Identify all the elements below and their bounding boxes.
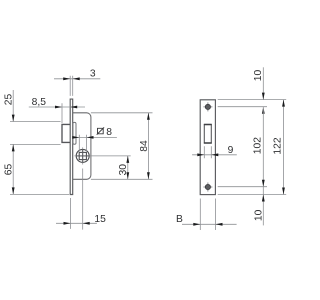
dim 10 top line: [262, 67, 264, 99]
svg-text:122: 122: [272, 137, 283, 154]
svg-text:10: 10: [253, 209, 264, 221]
dim B extension lines: [200, 199, 215, 231]
dim sq8 extension lines: [79, 135, 86, 152]
dim 25 arrow: [12, 115, 15, 122]
faceplate bottom extension line: [10, 193, 69, 195]
svg-text:65: 65: [3, 164, 14, 176]
dim 25 line: [12, 90, 14, 121]
dim 15 line: [56, 222, 97, 224]
faceplate (side view, 3mm thick): [70, 99, 73, 194]
dim 9 extension lines: [204, 146, 211, 158]
svg-text:102: 102: [253, 137, 264, 154]
dim B arrows: [193, 223, 222, 226]
dim 122 arrows: [282, 100, 285, 195]
dim 84 line: [147, 113, 149, 180]
case bottom extension line for 84/30: [91, 178, 153, 180]
dim sq8 arrows: [72, 136, 93, 139]
case top extension line for 84: [91, 112, 153, 114]
svg-text:B: B: [176, 214, 183, 225]
dim 10 bottom arrows: [262, 195, 265, 202]
faceplate front rectangle: [200, 100, 215, 195]
dim 15 arrows: [64, 222, 90, 225]
svg-text:9: 9: [228, 145, 234, 156]
dim 30 line: [127, 156, 129, 179]
dim 15 extension line left: [70, 198, 72, 229]
label sq8 symbol: [97, 127, 104, 134]
dim 3 extension lines: [70, 76, 73, 96]
dim 9 arrows: [197, 153, 218, 156]
svg-text:15: 15: [94, 214, 106, 225]
dim 65 line: [12, 144, 14, 194]
latch guide inside case: [73, 122, 76, 144]
dim 8,5 extension line (latch front): [61, 103, 63, 123]
dim 8,5 line: [29, 106, 85, 108]
lock case body: [73, 113, 91, 180]
screw bottom centre extension line: [218, 186, 267, 188]
dim 122 line: [283, 100, 285, 195]
slot bottom extension line: [10, 143, 61, 145]
follower vertical centerline: [82, 147, 84, 229]
follower circle: [76, 149, 89, 162]
screw hole top: [203, 102, 212, 111]
dim 10 top arrows: [262, 93, 265, 114]
dim 65 arrows: [12, 144, 15, 194]
dim 84 arrows: [147, 113, 150, 180]
plate top extension line: [218, 99, 287, 101]
plate bottom extension line: [218, 194, 287, 196]
dim 3 line: [54, 78, 100, 80]
dim 102 arrows: [262, 180, 265, 187]
screw hole bottom: [203, 183, 212, 192]
svg-text:84: 84: [139, 140, 150, 152]
svg-text:25: 25: [4, 94, 15, 106]
follower square 8mm: [79, 152, 86, 159]
screw top centre extension line: [218, 106, 267, 108]
svg-text:10: 10: [253, 70, 264, 82]
slot top extension line: [10, 121, 61, 123]
dim sq8 line: [73, 136, 117, 138]
latch slot: [204, 125, 211, 144]
dim B line: [182, 223, 237, 225]
dim 3 arrows: [63, 77, 79, 80]
dim 30 arrows: [126, 156, 129, 179]
svg-text:8,5: 8,5: [32, 97, 47, 108]
dim 9 line: [192, 154, 237, 156]
svg-text:30: 30: [118, 164, 129, 176]
dim 102 line: [262, 107, 264, 187]
dim 8,5 arrows: [55, 106, 77, 109]
svg-text:3: 3: [90, 69, 96, 80]
svg-text:8: 8: [106, 127, 112, 138]
latch bolt protrusion: [62, 124, 70, 142]
dim 10 bottom line: [262, 187, 264, 226]
follower horizontal centerline: [74, 155, 130, 157]
